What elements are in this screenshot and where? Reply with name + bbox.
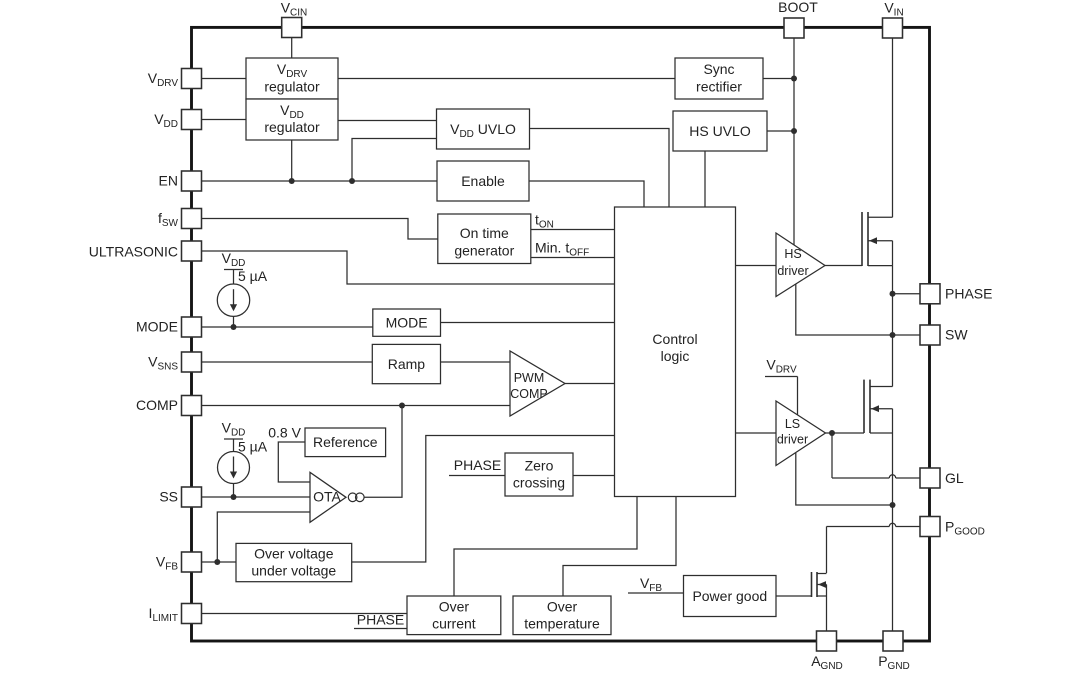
svg-text:Over: Over — [439, 599, 470, 615]
svg-text:MODE: MODE — [136, 319, 178, 335]
svg-text:PHASE: PHASE — [357, 612, 404, 628]
svg-text:GL: GL — [945, 470, 964, 486]
svg-text:PHASE: PHASE — [454, 457, 501, 473]
svg-text:Ramp: Ramp — [388, 356, 426, 372]
svg-text:Control: Control — [652, 331, 697, 347]
svg-text:crossing: crossing — [513, 475, 565, 491]
svg-text:OTA: OTA — [313, 489, 341, 505]
svg-text:Reference: Reference — [313, 434, 378, 450]
svg-text:SS: SS — [159, 489, 178, 505]
svg-text:PHASE: PHASE — [945, 286, 992, 302]
svg-text:regulator: regulator — [264, 79, 320, 95]
svg-text:generator: generator — [454, 243, 514, 259]
svg-text:Power good: Power good — [692, 588, 767, 604]
svg-text:LS: LS — [785, 417, 800, 431]
svg-text:ULTRASONIC: ULTRASONIC — [89, 244, 178, 260]
svg-text:HS UVLO: HS UVLO — [689, 123, 751, 139]
svg-text:SW: SW — [945, 327, 968, 343]
svg-text:PWM: PWM — [514, 371, 545, 385]
svg-text:HS: HS — [784, 247, 801, 261]
svg-text:5 µA: 5 µA — [238, 268, 268, 284]
svg-text:5 µA: 5 µA — [238, 439, 268, 455]
svg-text:logic: logic — [661, 348, 690, 364]
svg-text:MODE: MODE — [386, 315, 428, 331]
svg-text:0.8 V: 0.8 V — [268, 425, 301, 441]
svg-text:Over voltage: Over voltage — [254, 546, 334, 562]
svg-text:driver: driver — [777, 433, 808, 447]
svg-text:COMP: COMP — [136, 397, 178, 413]
svg-text:Over: Over — [547, 599, 578, 615]
svg-text:Sync: Sync — [703, 61, 734, 77]
svg-text:Enable: Enable — [461, 173, 505, 189]
svg-text:On time: On time — [460, 225, 509, 241]
svg-text:Zero: Zero — [525, 458, 554, 474]
svg-text:under voltage: under voltage — [251, 563, 336, 579]
svg-text:driver: driver — [777, 264, 808, 278]
svg-text:current: current — [432, 616, 476, 632]
svg-text:rectifier: rectifier — [696, 79, 742, 95]
svg-text:regulator: regulator — [264, 119, 320, 135]
svg-text:COMP: COMP — [510, 387, 548, 401]
svg-text:BOOT: BOOT — [778, 0, 818, 15]
svg-text:EN: EN — [159, 173, 178, 189]
svg-text:temperature: temperature — [524, 616, 600, 632]
